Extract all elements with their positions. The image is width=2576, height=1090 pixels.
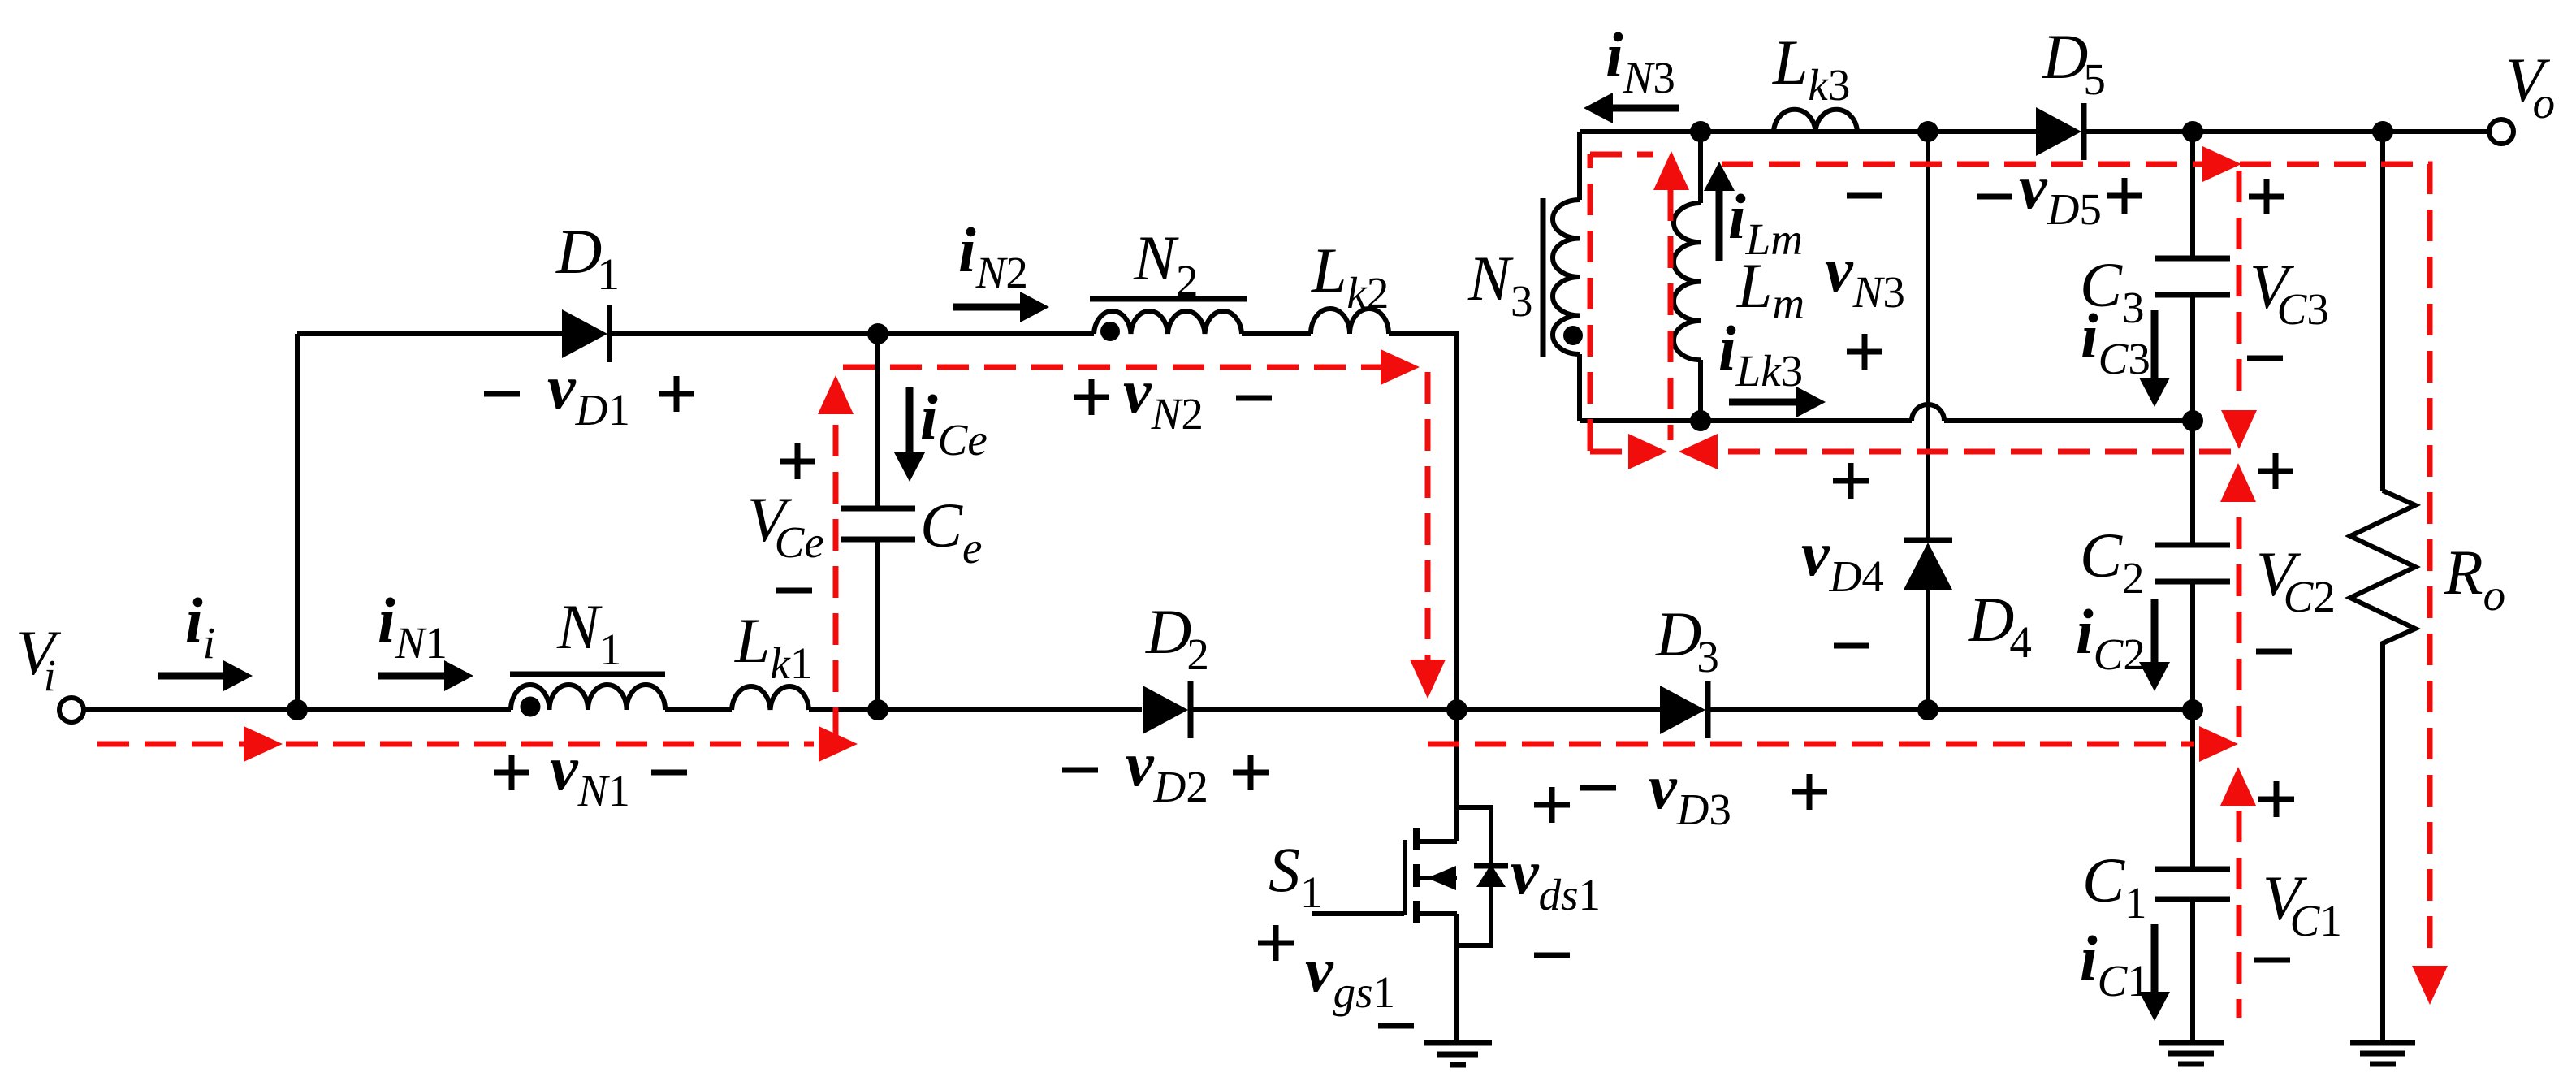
svg-text:Vi: Vi <box>16 617 62 700</box>
